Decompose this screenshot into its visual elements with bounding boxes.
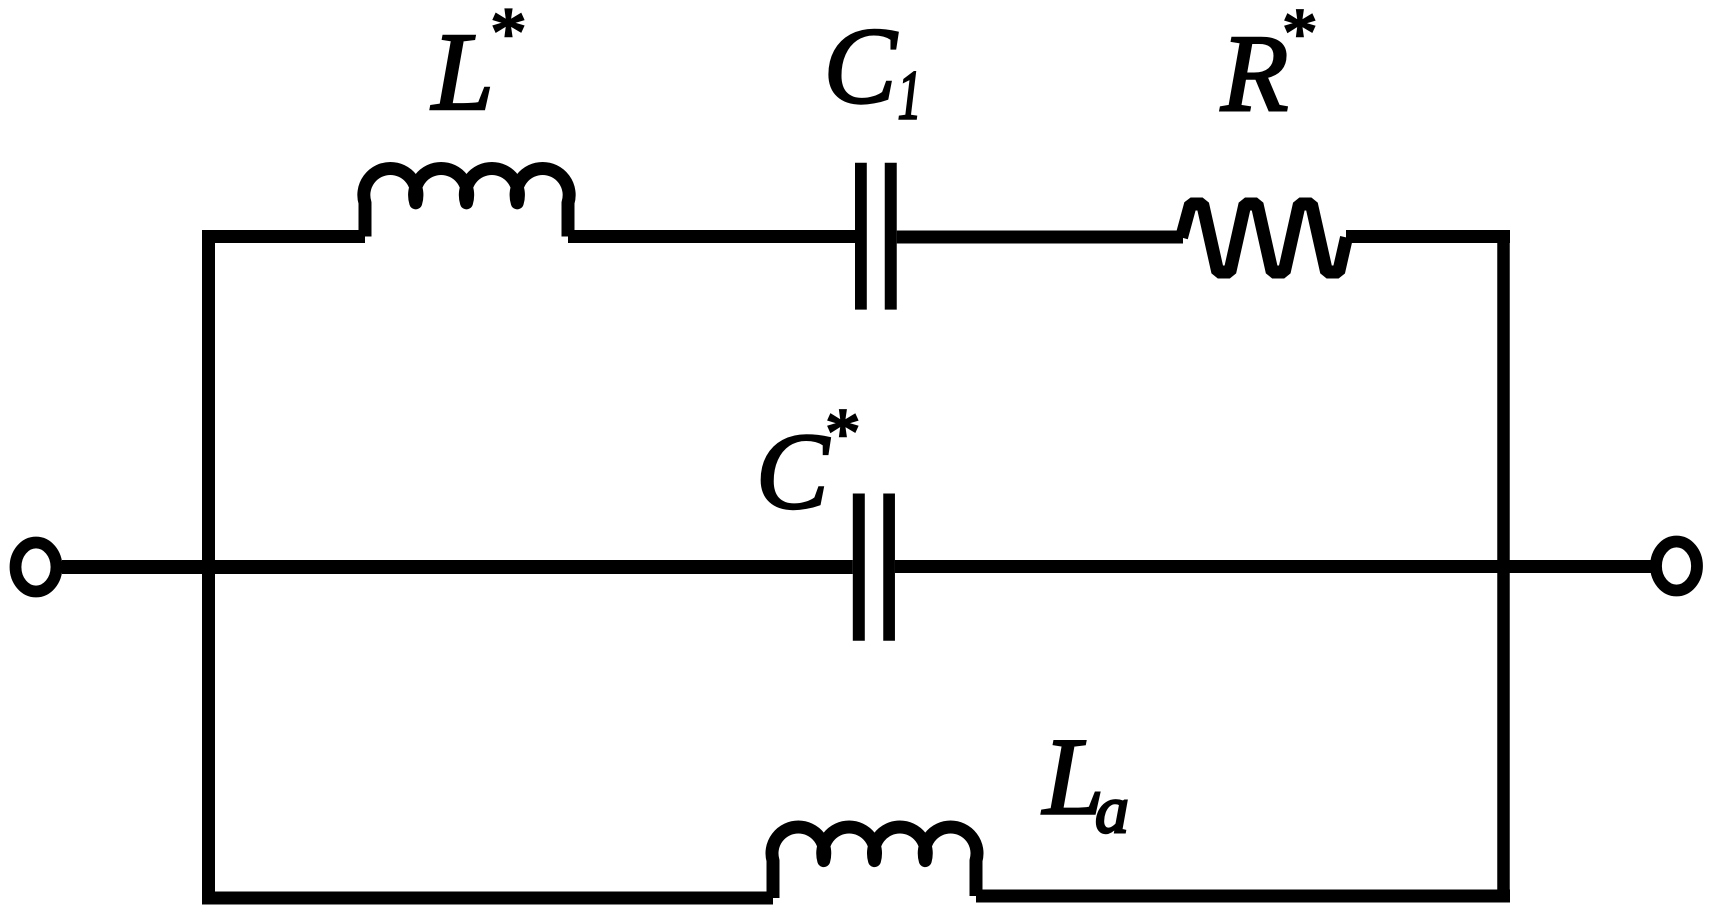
svg-text:C: C xyxy=(824,4,899,126)
wire: inductor La to right rail xyxy=(976,890,1510,903)
resistor R* xyxy=(1182,204,1347,272)
svg-text:*: * xyxy=(487,0,523,73)
svg-text:1: 1 xyxy=(898,58,922,135)
label L* xyxy=(430,0,523,134)
svg-text:C: C xyxy=(756,410,831,532)
label La xyxy=(1041,716,1129,848)
wire: bottom branch, left rail to inductor La xyxy=(202,892,773,905)
svg-text:*: * xyxy=(1279,0,1314,72)
wire: resistor R* to right rail xyxy=(1346,230,1510,243)
wire: capacitor C* right plate to right terminal xyxy=(895,560,1651,573)
inductor L* xyxy=(364,168,569,236)
wire: capacitor C1 to resistor R* xyxy=(897,231,1183,244)
svg-text:*: * xyxy=(822,395,857,472)
svg-text:a: a xyxy=(1095,772,1129,848)
capacitor C1 xyxy=(861,163,891,310)
wire: right vertical rail xyxy=(1497,231,1510,903)
inductor La xyxy=(772,827,977,898)
label C1 xyxy=(824,4,922,134)
label R* xyxy=(1220,0,1314,134)
wire: left vertical rail xyxy=(202,230,215,905)
svg-text:L: L xyxy=(430,11,494,134)
left terminal xyxy=(16,543,57,592)
label C* xyxy=(756,395,857,532)
wire: left terminal to capacitor C* left plate xyxy=(62,560,853,574)
capacitor C* xyxy=(859,494,889,641)
wire: inductor L* to capacitor C1 xyxy=(568,230,855,243)
wire: top branch, left rail to inductor L* xyxy=(202,230,365,243)
right terminal xyxy=(1656,542,1697,591)
